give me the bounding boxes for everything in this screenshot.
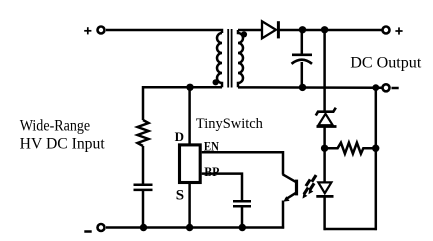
wire: emitter to bottom rail [282,201,285,229]
opto transistor collector lead [283,174,296,182]
transformer T1 secondary winding [238,30,243,87]
diode D1 (output rectifier) [262,21,278,38]
opto transistor emitter with arrow [283,193,296,202]
junction: C1 bottom node [299,84,306,91]
junction: zener branch top node [321,26,328,33]
svg-text:EN: EN [204,139,220,154]
capacitor C2 (input) [134,185,153,190]
wire: C3 bottom lead [241,206,244,227]
input + terminal [98,27,105,34]
label: - (input) [84,230,91,233]
zener diode VR1 [316,108,337,127]
light arrow 2 (optocoupler) [308,175,316,194]
wire: drain lead to IC [188,87,191,144]
junction: C1 top node [299,26,306,33]
wire: zener to feedback node [323,127,326,149]
wire: zener branch from top rail [323,30,326,111]
wire: secondary bottom loop [324,228,377,231]
wire: top input rail (+ terminal to primary top) [106,30,222,33]
label: + (input) [84,27,91,34]
label: - (output) [392,87,399,90]
svg-text:S: S [176,187,184,203]
junction: C3 bottom node [239,224,246,231]
wire: EN to opto collector [202,152,283,174]
TinySwitch IC U1 [180,145,201,183]
junction: drain node [186,84,193,91]
label: + (output) [395,27,402,34]
capacitor C3 (bypass) [233,201,251,206]
svg-text:TinySwitch: TinySwitch [196,116,263,132]
wire: LED bottom lead [323,196,326,230]
wire: S lead [188,184,191,228]
phase dot secondary [241,31,247,37]
wire: right rail lower [375,148,378,230]
wire: BP lead to C3 [202,174,242,201]
svg-text:D: D [175,129,184,144]
LED of optocoupler U2 [316,182,333,196]
wire: C2 bottom lead [142,190,145,228]
wire: secondary top to diode [238,29,262,32]
junction: R2 right node [372,145,379,152]
svg-text:BP: BP [204,164,219,179]
wire: LED top lead [323,148,326,182]
svg-text:HV DC Input: HV DC Input [20,136,106,153]
light arrow 1 (optocoupler) [303,179,311,198]
resistor R1 (input, vertical) [138,120,149,146]
transformer core [228,29,231,88]
junction: S node [186,224,193,231]
output - terminal [383,84,390,91]
wire: output bottom rail [238,86,382,89]
junction: feedback node [321,145,328,152]
wire: C1 bottom lead [301,62,304,87]
input - terminal [98,224,105,231]
resistor R2 (feedback, horizontal) [328,143,373,154]
wire: right rail upper [375,88,378,149]
junction: C2 bottom node [140,224,147,231]
wire: bottom input rail [106,226,284,229]
junction: - output node [372,84,379,91]
phase dot primary [213,79,219,85]
output + terminal [383,27,390,34]
svg-text:DC Output: DC Output [350,54,422,71]
wire: mid rail (primary bottom to RC branch) [143,87,222,120]
wire: R1 to C2 [142,146,145,184]
svg-text:Wide-Range: Wide-Range [20,118,91,135]
capacitor C1 (output, polarized) [292,55,313,64]
wire: diode to + output terminal [278,29,382,32]
wire: C1 top lead [301,30,304,54]
transformer T1 primary winding [217,33,222,87]
opto transistor base bar [295,180,298,196]
